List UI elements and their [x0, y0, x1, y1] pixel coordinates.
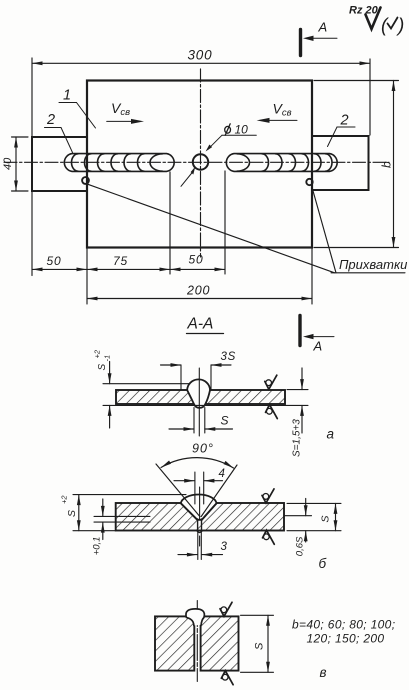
- svg-text:A: A: [318, 20, 328, 35]
- svg-text:S: S: [221, 414, 229, 428]
- svg-text:2: 2: [46, 112, 55, 128]
- svg-text:3: 3: [221, 541, 228, 553]
- svg-text:Vсв: Vсв: [111, 100, 130, 118]
- svg-text:Прихватки: Прихватки: [339, 257, 407, 272]
- svg-text:0,6S: 0,6S: [295, 536, 306, 556]
- svg-text:90°: 90°: [192, 442, 214, 456]
- svg-text:S: S: [97, 364, 108, 371]
- svg-text:(: (: [381, 16, 389, 37]
- svg-text:10: 10: [235, 123, 249, 137]
- svg-text:А-А: А-А: [187, 316, 214, 333]
- svg-text:+0,1: +0,1: [91, 537, 102, 556]
- svg-text:S=1,5+3: S=1,5+3: [292, 419, 303, 457]
- svg-text:Rz 20: Rz 20: [349, 5, 379, 17]
- svg-text:в: в: [320, 665, 327, 680]
- svg-text:а: а: [327, 427, 335, 442]
- svg-text:120; 150; 200: 120; 150; 200: [307, 632, 385, 646]
- svg-text:b: b: [380, 161, 394, 168]
- svg-text:40: 40: [2, 157, 14, 170]
- svg-text:75: 75: [113, 254, 128, 268]
- svg-text:1: 1: [63, 88, 71, 104]
- svg-text:A: A: [313, 339, 323, 354]
- svg-text:2: 2: [340, 113, 349, 129]
- svg-text:S: S: [319, 515, 331, 522]
- svg-text:S: S: [66, 510, 78, 517]
- svg-text:): ): [396, 16, 404, 37]
- svg-text:-1: -1: [102, 355, 111, 362]
- svg-text:+2: +2: [60, 495, 69, 504]
- svg-text:4: 4: [219, 468, 225, 480]
- svg-text:3S: 3S: [221, 351, 236, 363]
- svg-text:б: б: [319, 556, 327, 571]
- svg-text:300: 300: [188, 48, 213, 63]
- svg-text:50: 50: [47, 254, 62, 268]
- svg-text:50: 50: [189, 253, 204, 267]
- svg-text:200: 200: [186, 284, 210, 298]
- svg-text:Vсв: Vсв: [273, 101, 292, 119]
- svg-text:+2: +2: [92, 349, 101, 358]
- svg-text:b=40; 60; 80; 100;: b=40; 60; 80; 100;: [292, 618, 395, 632]
- svg-text:S: S: [254, 642, 266, 650]
